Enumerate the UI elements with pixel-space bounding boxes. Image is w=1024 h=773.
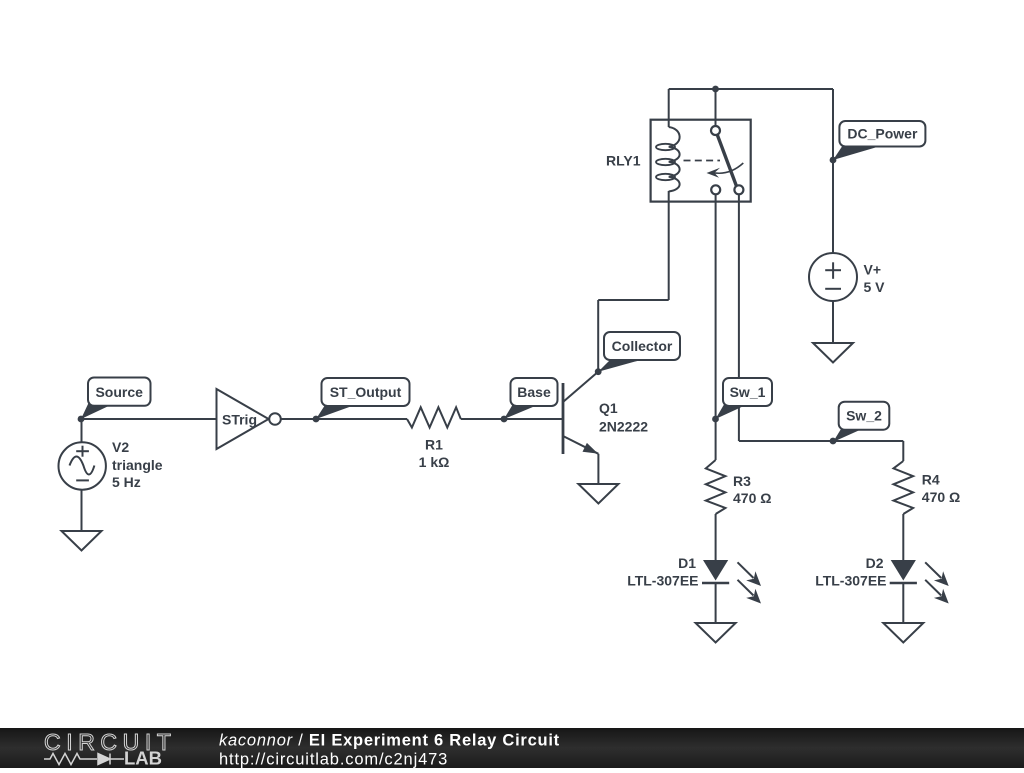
svg-text:RLY1: RLY1 — [606, 153, 641, 169]
svg-text:Collector: Collector — [612, 338, 673, 354]
svg-text:1 kΩ: 1 kΩ — [419, 454, 450, 470]
node Source — [78, 416, 85, 423]
svg-text:ST_Output: ST_Output — [330, 384, 402, 400]
relay RLY1 — [651, 120, 751, 202]
net flag Base — [504, 378, 558, 419]
net flag ST_Output — [316, 378, 410, 419]
svg-text:LTL-307EE: LTL-307EE — [627, 573, 698, 589]
resistor R1 — [407, 407, 461, 427]
label V+ value — [864, 262, 886, 296]
wire V+ to ground — [832, 301, 834, 343]
net flag Sw_2 — [833, 402, 889, 442]
wire R1 to Base node — [461, 418, 504, 420]
node Base — [501, 416, 508, 423]
svg-text:R3: R3 — [733, 473, 751, 489]
svg-text:5 Hz: 5 Hz — [112, 474, 141, 490]
wire switch common up — [715, 89, 717, 126]
label Q1 value — [599, 400, 648, 435]
label R3 value — [733, 473, 771, 506]
net flag Collector — [598, 332, 680, 372]
wire DC rail down — [832, 89, 834, 255]
svg-text:D2: D2 — [866, 555, 884, 571]
svg-text:470 Ω: 470 Ω — [733, 490, 771, 506]
diode D2 — [890, 560, 949, 604]
node Sw_2 — [830, 438, 837, 445]
svg-text:Source: Source — [95, 384, 143, 400]
wire D2 to ground — [902, 583, 904, 623]
ground below D1 — [696, 623, 736, 643]
svg-text:V2: V2 — [112, 439, 129, 455]
net flag Source — [81, 378, 151, 420]
net flag Sw_1 — [716, 378, 773, 419]
node top rail — [712, 86, 719, 93]
voltage source V1 V+ — [809, 253, 857, 301]
wire Base node to Q1 — [504, 418, 562, 420]
svg-text:V+: V+ — [864, 262, 882, 278]
svg-text:5 V: 5 V — [864, 279, 886, 295]
svg-text:Sw_1: Sw_1 — [730, 384, 766, 400]
svg-text:kaconnor / EI Experiment 6 Rel: kaconnor / EI Experiment 6 Relay Circuit — [219, 732, 560, 750]
node Collector — [595, 368, 602, 375]
wire Q1 emitter to ground — [597, 454, 599, 484]
ground below V+ — [813, 343, 853, 363]
schmitt trigger STrig — [217, 389, 281, 449]
svg-text:LTL-307EE: LTL-307EE — [815, 573, 886, 589]
svg-text:Sw_2: Sw_2 — [846, 408, 882, 424]
label D2 value — [815, 555, 886, 589]
svg-text:R4: R4 — [922, 472, 940, 488]
ground below V2 — [62, 531, 102, 551]
wire top rail — [669, 88, 833, 90]
label V2 value — [112, 439, 163, 490]
wire switch NO terminal down to R3 — [715, 194, 717, 460]
svg-text:DC_Power: DC_Power — [847, 126, 918, 142]
footer bar — [0, 728, 1024, 768]
wire blade terminal down — [738, 194, 740, 441]
label D1 value — [627, 555, 698, 589]
node ST_Output — [313, 416, 320, 423]
label R1 value — [419, 437, 450, 471]
svg-text:R1: R1 — [425, 437, 443, 453]
svg-text:470 Ω: 470 Ω — [922, 489, 960, 505]
svg-text:Q1: Q1 — [599, 400, 618, 416]
wire R3 to D1 — [715, 514, 717, 560]
wire down to R4 — [902, 441, 904, 461]
wire Source node down to V2 — [81, 419, 83, 443]
wire collector horizontal — [598, 299, 669, 301]
node Sw_1 — [712, 416, 719, 423]
ground below D2 — [883, 623, 923, 643]
wire STrig output to ST_Output node — [281, 418, 316, 420]
resistor R4 — [894, 461, 914, 514]
footer logo doodle — [44, 754, 124, 765]
wire D1 to ground — [715, 583, 717, 623]
voltage source V2 — [58, 442, 105, 489]
svg-text:STrig: STrig — [222, 412, 257, 428]
resistor R3 — [706, 460, 726, 514]
transistor Q1 — [563, 372, 598, 455]
wire relay coil top — [668, 89, 670, 127]
wire Source node to STrig input — [81, 418, 217, 420]
svg-text:Base: Base — [517, 384, 551, 400]
svg-text:http://circuitlab.com/c2nj473: http://circuitlab.com/c2nj473 — [219, 751, 448, 769]
svg-text:LAB: LAB — [124, 748, 162, 769]
svg-text:D1: D1 — [678, 555, 696, 571]
node DC_Power — [830, 157, 837, 164]
svg-text:2N2222: 2N2222 — [599, 419, 648, 435]
label R4 value — [922, 472, 960, 506]
svg-text:triangle: triangle — [112, 457, 163, 473]
wire ST_Output node to R1 — [316, 418, 407, 420]
wire Sw_2 horizontal — [739, 440, 903, 442]
wire V2 to ground — [81, 490, 83, 531]
net flag DC_Power — [833, 121, 925, 160]
ground below Q1 — [578, 484, 618, 504]
wire collector node up — [597, 300, 599, 372]
wire up to relay coil bottom — [668, 191, 670, 300]
diode D1 — [702, 560, 761, 604]
wire R4 to D2 — [902, 514, 904, 560]
